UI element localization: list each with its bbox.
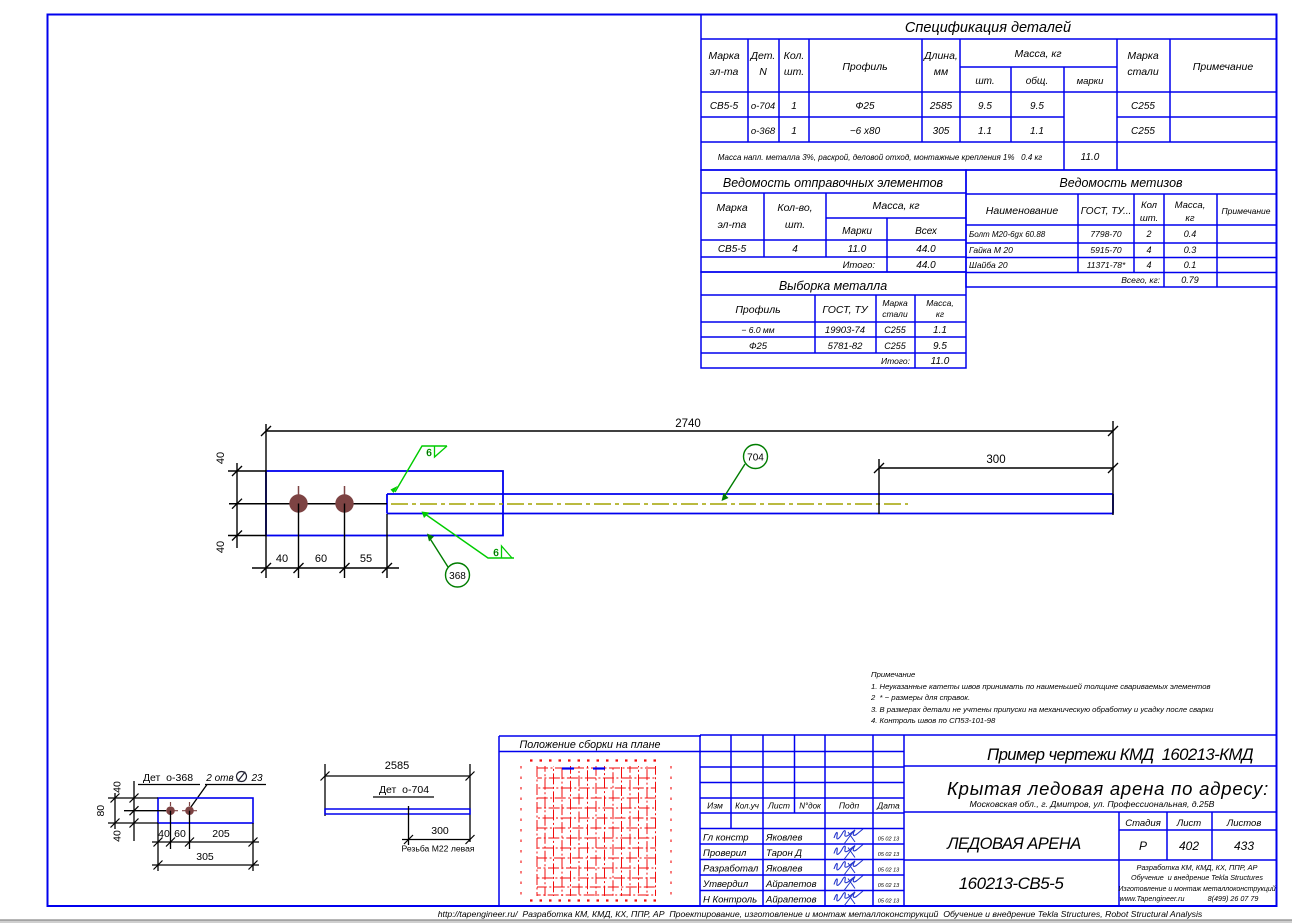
svg-text:0.4: 0.4: [1184, 229, 1197, 239]
svg-text:5915-70: 5915-70: [1090, 245, 1121, 255]
svg-text:Масса,: Масса,: [1175, 200, 1206, 211]
bolt hole 2: [335, 494, 353, 512]
svg-text:305: 305: [196, 851, 214, 863]
svg-text:о-704: о-704: [751, 101, 775, 112]
svg-text:Ф25: Ф25: [749, 341, 768, 352]
svg-text:Ведомость метизов: Ведомость метизов: [1059, 176, 1183, 190]
hole axes vertical: [170, 811, 172, 849]
svg-text:Обучение и внедрение Tekla St: Обучение и внедрение Tekla Structures: [1131, 873, 1263, 882]
detail о-704 view: [321, 760, 475, 854]
bottom gray scrollbar strip: [0, 920, 1292, 923]
svg-text:6: 6: [426, 448, 432, 459]
svg-text:5781-82: 5781-82: [828, 341, 864, 352]
svg-text:шт.: шт.: [975, 76, 994, 87]
svg-text:402: 402: [1179, 839, 1199, 853]
svg-text:стали: стали: [1127, 66, 1159, 78]
plate rect: [158, 798, 253, 823]
svg-text:Дет.: Дет.: [750, 50, 776, 62]
svg-text:Дет о-704: Дет о-704: [379, 784, 429, 796]
rod (о-704) top line: [387, 493, 1113, 495]
svg-text:9.5: 9.5: [1030, 101, 1044, 112]
svg-text:Ф25: Ф25: [855, 101, 875, 112]
svg-text:1.1: 1.1: [978, 126, 992, 137]
rod left end edge: [386, 494, 388, 514]
svg-text:Резьба М22 левая: Резьба М22 левая: [401, 844, 474, 854]
svg-text:Примечание: Примечание: [1193, 61, 1254, 73]
svg-text:19903-74: 19903-74: [825, 325, 865, 336]
bolt hole 1: [289, 494, 307, 512]
svg-text:Утвердил: Утвердил: [702, 879, 749, 890]
svg-text:55: 55: [360, 553, 372, 565]
svg-text:СВ5-5: СВ5-5: [710, 101, 739, 112]
svg-text:Примечание: Примечание: [871, 670, 915, 679]
svg-text:11.0: 11.0: [1081, 152, 1100, 163]
rod centerline (dash-dot, olive): [391, 503, 908, 505]
svg-text:Дата: Дата: [876, 801, 900, 811]
svg-text:Разработка КМ, КМД, КХ, ППР, А: Разработка КМ, КМД, КХ, ППР, АР: [1137, 863, 1258, 872]
svg-text:1: 1: [791, 126, 797, 137]
svg-text:кг: кг: [936, 309, 944, 319]
svg-text:23: 23: [250, 773, 263, 784]
svg-text:Кол.уч: Кол.уч: [735, 802, 759, 811]
svg-text:Всех: Всех: [915, 226, 938, 237]
dimension 300 (assembly right): [874, 454, 1118, 514]
svg-text:шт.: шт.: [1140, 213, 1158, 224]
svg-text:Яковлев: Яковлев: [765, 864, 803, 875]
svg-text:Листов: Листов: [1226, 818, 1262, 829]
svg-text:Всего, кг:: Всего, кг:: [1121, 275, 1160, 285]
svg-text:Кол-во,: Кол-во,: [777, 202, 812, 214]
svg-text:−6 х80: −6 х80: [850, 126, 881, 137]
svg-text:Марки: Марки: [842, 226, 872, 237]
dim 305: [152, 864, 259, 866]
svg-text:4. Контроль швов по СП53-101-9: 4. Контроль швов по СП53-101-98: [871, 716, 996, 725]
svg-text:N°док: N°док: [799, 802, 822, 811]
svg-text:Изм: Изм: [707, 801, 723, 811]
svg-text:шт.: шт.: [784, 66, 804, 78]
svg-text:Дет о-368: Дет о-368: [143, 772, 193, 784]
svg-text:1. Неуказанные катеты швов при: 1. Неуказанные катеты швов принимать по …: [871, 682, 1211, 691]
holes: [166, 806, 175, 815]
svg-text:Айрапетов: Айрапетов: [765, 895, 817, 906]
svg-text:60: 60: [174, 828, 186, 840]
svg-text:4: 4: [1146, 260, 1151, 270]
svg-text:общ.: общ.: [1026, 75, 1048, 87]
dim 40/40 vertical: [133, 781, 135, 841]
svg-text:6: 6: [493, 548, 499, 559]
svg-text:1.1: 1.1: [933, 325, 947, 336]
svg-text:Примечание: Примечание: [1222, 206, 1271, 216]
vertical dimensions 40/40 left: [215, 452, 266, 553]
svg-text:05 02 13: 05 02 13: [878, 868, 900, 874]
svg-text:8(499) 26 07 79: 8(499) 26 07 79: [1208, 894, 1259, 903]
svg-text:1.1: 1.1: [1030, 126, 1044, 137]
svg-text:300: 300: [986, 454, 1005, 466]
svg-text:Выборка металла: Выборка металла: [779, 279, 887, 293]
svg-text:44.0: 44.0: [916, 260, 936, 271]
svg-text:Профиль: Профиль: [735, 304, 780, 316]
svg-text:9.5: 9.5: [978, 101, 992, 112]
weld symbol 6 (upper): [391, 446, 448, 493]
svg-text:2740: 2740: [675, 418, 701, 430]
svg-text:Яковлев: Яковлев: [765, 833, 803, 844]
svg-text:2: 2: [1145, 229, 1151, 239]
diameter symbol: [237, 772, 247, 782]
svg-text:Стадия: Стадия: [1125, 818, 1161, 829]
plan panel (Положение сборки на плане): [499, 736, 701, 906]
dim 300: [402, 839, 470, 841]
svg-text:05 02 13: 05 02 13: [878, 899, 900, 905]
svg-text:Р: Р: [1139, 839, 1147, 853]
balloon 704: [722, 445, 768, 502]
svg-text:0.79: 0.79: [1181, 275, 1199, 285]
bolt hole 2 axis: [344, 486, 346, 495]
svg-text:Пример чертежи КМД 160213-КМД: Пример чертежи КМД 160213-КМД: [987, 745, 1254, 764]
svg-text:Масса, кг: Масса, кг: [872, 200, 919, 212]
svg-text:1: 1: [791, 101, 797, 112]
svg-text:0.3: 0.3: [1184, 245, 1197, 255]
svg-text:мм: мм: [934, 66, 948, 78]
svg-text:Изготовление и монтаж металлок: Изготовление и монтаж металлоконструкций: [1118, 885, 1275, 893]
svg-text:Н Контроль: Н Контроль: [703, 895, 757, 906]
svg-text:2 отв: 2 отв: [205, 773, 233, 784]
weld symbol 6 (lower): [422, 512, 515, 560]
svg-text:Марка: Марка: [716, 202, 748, 214]
svg-text:368: 368: [449, 571, 466, 582]
svg-text:160213-СВ5-5: 160213-СВ5-5: [959, 874, 1065, 893]
bolt hole 1 axis: [298, 486, 300, 495]
dimension 2740: [261, 418, 1118, 578]
notes (Примечание): [870, 670, 1214, 725]
svg-text:Масса, кг: Масса, кг: [1014, 48, 1061, 60]
svg-text:40: 40: [215, 452, 227, 464]
svg-text:http://tapengineer.ru/ Разраб: http://tapengineer.ru/ Разработка КМ, КМ…: [438, 909, 1203, 919]
svg-text:Московская обл., г. Дмитров, у: Московская обл., г. Дмитров, ул. Професс…: [970, 799, 1215, 809]
svg-text:0.1: 0.1: [1184, 260, 1197, 270]
svg-text:ГОСТ, ТУ...: ГОСТ, ТУ...: [1081, 206, 1132, 217]
svg-text:60: 60: [315, 553, 327, 565]
table: Спецификация деталей: [701, 15, 1277, 171]
svg-text:4: 4: [792, 244, 798, 255]
svg-text:марки: марки: [1077, 76, 1105, 87]
table: Ведомость отправочных элементов: [701, 170, 966, 272]
svg-text:о-368: о-368: [751, 126, 776, 137]
red column grid on plan: [521, 761, 671, 901]
svg-text:эл-та: эл-та: [710, 66, 739, 78]
svg-text:Масса,: Масса,: [926, 298, 954, 308]
table: Ведомость метизов: [966, 170, 1277, 287]
svg-text:Лист: Лист: [767, 801, 790, 811]
svg-text:Проверил: Проверил: [703, 848, 747, 859]
detail о-368 view: [95, 772, 266, 872]
svg-text:4: 4: [1146, 245, 1151, 255]
svg-text:2585: 2585: [929, 101, 953, 112]
svg-text:Айрапетов: Айрапетов: [765, 879, 817, 890]
svg-text:704: 704: [747, 453, 764, 464]
hole centerline horizontal: [124, 810, 166, 812]
svg-text:С255: С255: [1131, 101, 1155, 112]
svg-text:Гайка М 20: Гайка М 20: [969, 245, 1013, 255]
svg-text:Кол.: Кол.: [784, 50, 805, 62]
svg-text:Разработал: Разработал: [703, 864, 759, 875]
dim 80: [114, 793, 116, 829]
svg-text:Крытая ледовая арена по адресу: Крытая ледовая арена по адресу:: [947, 778, 1269, 799]
svg-text:эл-та: эл-та: [718, 219, 747, 231]
svg-text:С255: С255: [1131, 126, 1155, 137]
rod bar: [325, 809, 470, 814]
svg-text:433: 433: [1234, 839, 1254, 853]
svg-text:300: 300: [431, 825, 449, 837]
rod right end edge: [1112, 494, 1114, 514]
blue marks on plan: [562, 767, 574, 769]
svg-text:05 02 13: 05 02 13: [878, 852, 900, 858]
svg-text:кг: кг: [1185, 213, 1194, 224]
svg-text:Профиль: Профиль: [842, 61, 887, 73]
svg-text:Марка: Марка: [1127, 50, 1159, 62]
svg-text:− 6.0 мм: − 6.0 мм: [741, 325, 774, 335]
main assembly view СВ5-5: [229, 471, 1113, 578]
svg-text:Марка: Марка: [882, 298, 908, 308]
svg-text:С255: С255: [884, 341, 907, 351]
svg-text:Спецификация деталей: Спецификация деталей: [905, 20, 1071, 36]
rod bottom line: [387, 513, 1113, 515]
svg-text:40: 40: [158, 828, 170, 840]
hole centerline horizontal: [229, 503, 387, 505]
leader to hole 2: [190, 785, 208, 810]
svg-text:9.5: 9.5: [933, 341, 947, 352]
svg-text:Ведомость отправочных элементо: Ведомость отправочных элементов: [723, 176, 944, 190]
svg-text:05 02 13: 05 02 13: [878, 837, 900, 843]
svg-text:Масса напл. металла 3%, раскро: Масса напл. металла 3%, раскрой, деловой…: [718, 153, 1043, 162]
thread extension line: [408, 806, 410, 845]
svg-text:Наименование: Наименование: [986, 205, 1059, 217]
table: Выборка металла: [701, 272, 966, 368]
svg-text:СВ5-5: СВ5-5: [718, 244, 747, 255]
svg-text:3. В размерах детали не учтены: 3. В размерах детали не учтены припуски …: [871, 705, 1214, 714]
svg-text:Положение сборки на плане: Положение сборки на плане: [520, 739, 661, 751]
balloon 368: [427, 534, 470, 588]
svg-text:2585: 2585: [385, 760, 409, 772]
svg-text:ЛЕДОВАЯ АРЕНА: ЛЕДОВАЯ АРЕНА: [946, 835, 1081, 853]
svg-text:11.0: 11.0: [931, 356, 950, 367]
svg-text:11371-78*: 11371-78*: [1087, 260, 1126, 270]
svg-text:ГОСТ, ТУ: ГОСТ, ТУ: [822, 304, 868, 316]
svg-text:80: 80: [95, 805, 107, 817]
svg-text:Итого:: Итого:: [881, 356, 911, 366]
signature table: [700, 735, 904, 906]
plate outline (о-368): [266, 471, 503, 536]
svg-text:Болт М20-6gх 60.88: Болт М20-6gх 60.88: [969, 230, 1046, 239]
dims 40/60/205: [152, 841, 259, 843]
signatures (blue scribbles): [834, 829, 863, 839]
svg-text:www.Tapengineer.ru: www.Tapengineer.ru: [1120, 894, 1185, 903]
svg-text:Длина,: Длина,: [923, 50, 958, 62]
svg-text:N: N: [759, 66, 767, 78]
svg-text:11.0: 11.0: [848, 244, 867, 255]
svg-text:Шайба 20: Шайба 20: [969, 260, 1008, 270]
svg-text:С255: С255: [884, 325, 907, 335]
svg-text:44.0: 44.0: [916, 244, 936, 255]
svg-text:40: 40: [112, 781, 124, 793]
svg-text:2 * − размеры для справок.: 2 * − размеры для справок.: [870, 693, 970, 702]
svg-text:Кол: Кол: [1141, 200, 1158, 211]
svg-text:7798-70: 7798-70: [1090, 229, 1121, 239]
svg-text:40: 40: [276, 553, 288, 565]
svg-text:Итого:: Итого:: [843, 260, 876, 271]
svg-text:Подп: Подп: [839, 801, 860, 811]
svg-text:40: 40: [112, 830, 124, 842]
svg-text:305: 305: [933, 126, 950, 137]
svg-text:Гл констр: Гл констр: [703, 833, 749, 844]
svg-text:Марка: Марка: [708, 50, 740, 62]
svg-text:шт.: шт.: [785, 219, 805, 231]
svg-text:205: 205: [212, 828, 230, 840]
svg-text:Лист: Лист: [1176, 818, 1202, 829]
svg-text:стали: стали: [882, 309, 908, 319]
svg-text:40: 40: [215, 541, 227, 553]
svg-text:Тарон Д: Тарон Д: [766, 848, 802, 859]
main title block: [904, 735, 1277, 906]
footer text line: [438, 909, 1203, 919]
horizontal dimensions 40/60/55 bottom: [252, 514, 399, 578]
svg-text:05 02 13: 05 02 13: [878, 883, 900, 889]
